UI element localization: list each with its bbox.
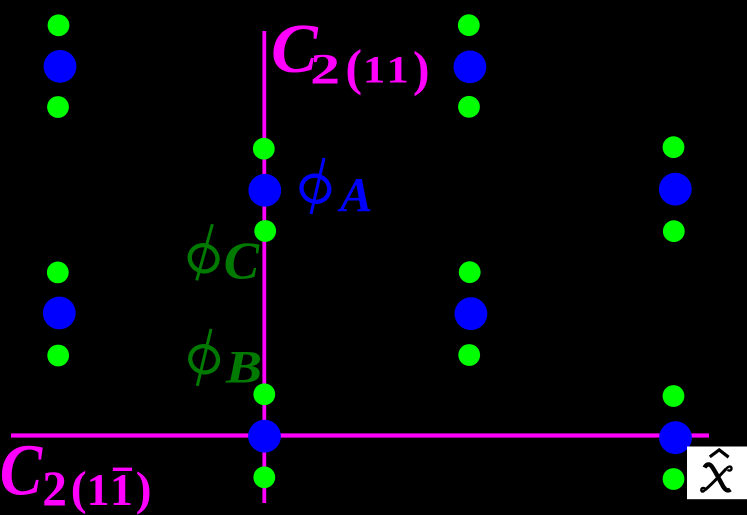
- green atom col2 below phi_A: [254, 220, 276, 242]
- C2(1-1) rotation axis: horizontal magenta line: [11, 433, 709, 437]
- blue atom col3 top-triplet center: [454, 51, 487, 84]
- blue atom col2 at axes crossing: [248, 420, 281, 453]
- label C2(1-1bar): overbar on second 1: [113, 468, 132, 471]
- x-hat axis label: italic x (math-italic style strokes): [701, 464, 731, 491]
- label phi_B: phi slash: [197, 329, 211, 386]
- blue atom col3 mid-triplet center: [455, 297, 488, 330]
- svg-text:(: (: [71, 462, 87, 515]
- green atom col1 mid-triplet lower: [47, 345, 69, 367]
- green atom col1 mid-triplet upper: [47, 262, 69, 284]
- green atom col3 mid-triplet upper: [459, 261, 481, 283]
- green atom col4 upper-triplet upper: [663, 136, 685, 158]
- green atom col3 mid-triplet lower: [458, 344, 480, 366]
- green atom col4 upper-triplet lower: [663, 220, 685, 242]
- svg-text:B: B: [225, 343, 262, 394]
- svg-text:1: 1: [363, 48, 385, 92]
- x-hat axis label: white box: [687, 447, 747, 500]
- green atom col2 phi_C site: [253, 138, 275, 160]
- blue atom col2 phi_A site: [248, 174, 281, 207]
- svg-text:): ): [413, 40, 430, 96]
- svg-text:1: 1: [387, 48, 409, 92]
- green atom col1 top-triplet lower: [47, 96, 69, 118]
- label phi_A: phi ellipse: [298, 172, 333, 206]
- svg-text:1: 1: [87, 464, 110, 515]
- green atom col4 lower-triplet upper: [663, 385, 685, 407]
- green atom col2 bottom: [253, 466, 275, 488]
- green atom col3 top-triplet upper: [458, 14, 480, 36]
- x-hat axis label: circumflex hat: [710, 450, 729, 457]
- label phi_A: phi slash: [311, 158, 324, 214]
- blue atom col1 mid-triplet center: [43, 297, 76, 330]
- svg-text:): ): [136, 463, 152, 515]
- svg-text:1: 1: [110, 464, 133, 515]
- green atom col3 top-triplet lower: [458, 96, 480, 118]
- green atom col1 top-triplet upper: [48, 14, 70, 36]
- label phi_C: phi ellipse: [186, 241, 221, 275]
- svg-text:C: C: [0, 430, 43, 511]
- blue atom col1 top-triplet center: [44, 50, 77, 83]
- blue atom col4 lower-triplet center on axis: [659, 421, 692, 454]
- green atom col2 phi_B site: [253, 383, 275, 405]
- green atom col4 lower-triplet lower: [663, 468, 685, 490]
- label phi_B: phi ellipse: [186, 342, 221, 376]
- C2(11) rotation axis: vertical magenta line: [262, 31, 266, 503]
- svg-text:A: A: [337, 168, 372, 222]
- svg-text:2: 2: [310, 46, 340, 94]
- blue atom col4 upper-triplet center: [659, 173, 692, 206]
- svg-text:2: 2: [42, 461, 67, 515]
- svg-text:C: C: [224, 233, 260, 291]
- label phi_C: phi slash: [197, 224, 213, 280]
- svg-text:(: (: [345, 40, 362, 96]
